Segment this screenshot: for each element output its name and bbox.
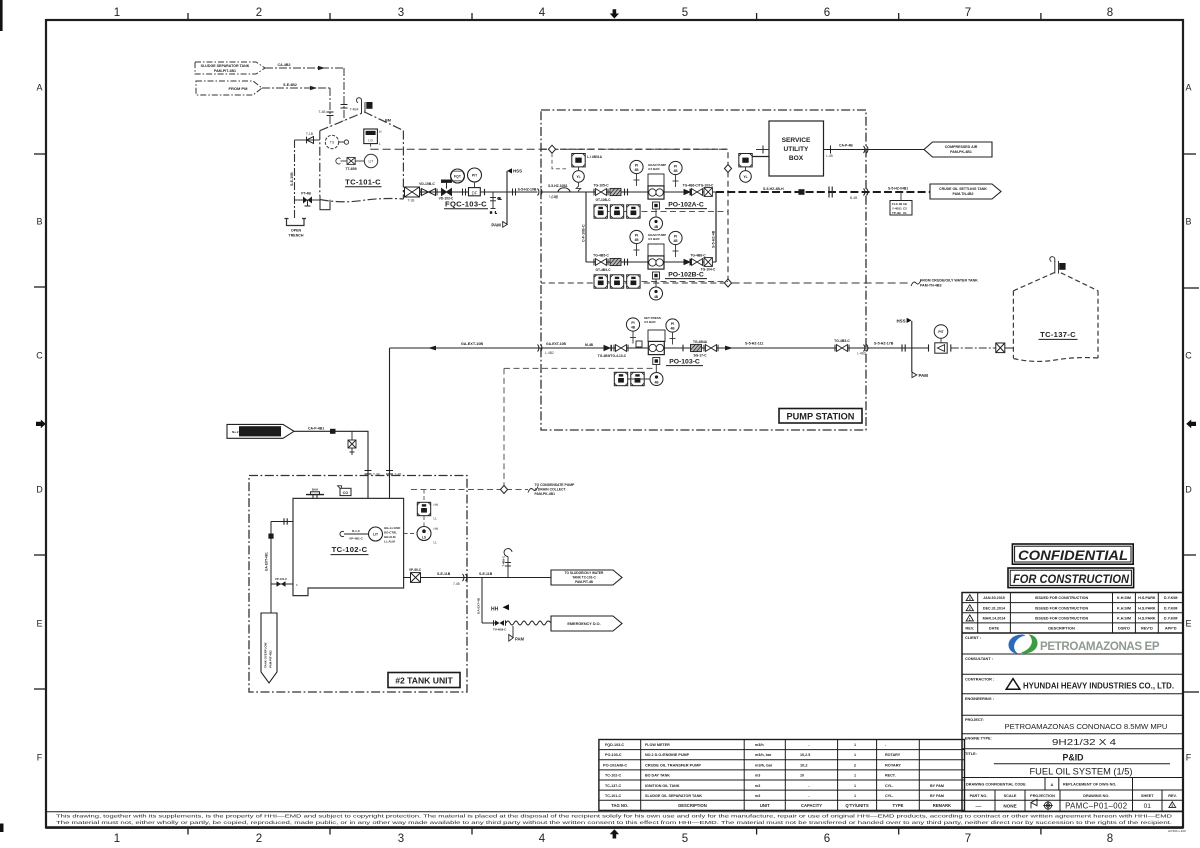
svg-text:DATE: DATE — [989, 626, 1000, 631]
instrument HS square right of tank — [417, 502, 439, 520]
svg-text:H.S.PARK: H.S.PARK — [1138, 596, 1156, 600]
HSS arrow label — [907, 318, 912, 323]
svg-text:SLUDGE OIL SEPARATOR TANK: SLUDGE OIL SEPARATOR TANK — [645, 794, 702, 798]
flange joint on heavy line — [829, 187, 832, 198]
svg-text:GT-4B9-C: GT-4B9-C — [595, 268, 611, 272]
svg-text:HSS: HSS — [896, 318, 905, 323]
svg-text:S-5-HZ-4B: S-5-HZ-4B — [712, 230, 716, 248]
table row: TC-137-C — [605, 784, 944, 788]
svg-text:FQC-103-C: FQC-103-C — [445, 200, 487, 209]
svg-text:ISSUED FOR CONSTRUCTION: ISSUED FOR CONSTRUCTION — [1035, 617, 1089, 621]
grid ticks bottom — [187, 828, 189, 835]
svg-text:TC-137-C: TC-137-C — [605, 784, 622, 788]
gate valve pump A discharge — [690, 189, 704, 196]
open drain funnel — [285, 219, 307, 226]
signal dashes + alarm squares row (pump A) — [594, 211, 728, 213]
spectacle box pump A discharge — [704, 188, 712, 197]
signal drop from pump station — [503, 368, 505, 489]
svg-text:TC-101-C: TC-101-C — [345, 178, 381, 187]
svg-text:T-4B: T-4B — [318, 110, 326, 114]
svg-text:ENGINE TYPE:: ENGINE TYPE: — [965, 737, 992, 741]
wire: PO-103-C suction line y=348 — [390, 347, 650, 349]
svg-text:GA-EXT-10B: GA-EXT-10B — [461, 342, 484, 346]
svg-text:LG: LG — [368, 139, 373, 143]
svg-text:FROM CRUDE/OILY WATER TANK: FROM CRUDE/OILY WATER TANK — [920, 279, 978, 283]
svg-text:LIT: LIT — [369, 160, 374, 164]
centering arrow right — [1186, 420, 1196, 429]
disclaimer band text — [56, 813, 1173, 826]
PAM open triangle — [912, 372, 917, 377]
wire: flag1 to tank roof (dash-dot) — [265, 68, 344, 121]
svg-text:HH+LL:ESD: HH+LL:ESD — [384, 526, 400, 530]
svg-text:VD-10B-C: VD-10B-C — [419, 182, 435, 186]
svg-text:F: F — [1186, 753, 1192, 763]
valve TG-10B-C (pump B suction) — [594, 259, 608, 266]
svg-text:UTILITY: UTILITY — [784, 146, 810, 153]
flame arrestor on TC-102-C — [306, 492, 324, 499]
svg-text:UNIT: UNIT — [760, 803, 770, 808]
svg-text:A: A — [1185, 83, 1191, 93]
svg-text:REV.: REV. — [965, 626, 974, 631]
svg-text:2: 2 — [256, 7, 262, 19]
svg-text:H.S.PARK: H.S.PARK — [1138, 606, 1156, 610]
wire: PO-103 suction drop to tank — [389, 348, 391, 498]
flange pair + spec break label — [513, 189, 516, 196]
relief loop above pump B — [648, 244, 664, 256]
vertical dash-dot pipe S-E-10B — [294, 140, 296, 218]
svg-text:TP-4B: TP-4B — [892, 211, 902, 215]
svg-text:DESCRIPTION: DESCRIPTION — [678, 803, 707, 808]
vent on TC-137-C — [1050, 257, 1066, 274]
svg-text:This drawing, together with it: This drawing, together with its suppleme… — [56, 813, 1173, 819]
title block — [962, 544, 1183, 811]
svg-text:S-E-11B: S-E-11B — [479, 572, 493, 576]
control valve VD-103-C with actuator — [442, 180, 452, 195]
label TC-101-C — [345, 178, 382, 187]
svg-text:PO-102A-C: PO-102A-C — [668, 202, 704, 209]
valve box VP-59-C — [411, 573, 421, 583]
svg-text:SCALE: SCALE — [1004, 794, 1017, 798]
svg-text:DSN'D: DSN'D — [1118, 626, 1130, 631]
svg-text:TO CONDENSATE PUMP: TO CONDENSATE PUMP — [535, 483, 576, 487]
alarm squares (PO-103) — [614, 372, 627, 385]
signal dashed line to tank unit — [504, 367, 654, 369]
svg-text:FQT: FQT — [454, 175, 462, 179]
part/scale value row — [976, 799, 1176, 810]
flag connector: TO SLUDGE SEP TANK (outgoing) — [551, 570, 622, 585]
node diamond right edge mid — [724, 165, 731, 173]
instrument LS circle — [417, 527, 439, 545]
svg-text:EMERGENCY D.O.: EMERGENCY D.O. — [567, 622, 600, 626]
svg-text:m3/h: m3/h — [755, 743, 764, 747]
svg-text:PETROAMAZONAS EP: PETROAMAZONAS EP — [1040, 640, 1160, 653]
svg-text:M-4B: M-4B — [585, 343, 594, 347]
svg-text:DRAWING NO.: DRAWING NO. — [1083, 794, 1109, 798]
flag connector: EMERGENCY D.O. (outgoing) — [551, 616, 622, 631]
node diamond on signal line at station entry — [548, 145, 555, 153]
flag connector: COMPRESSED AIR (incoming) — [924, 142, 992, 157]
instrument LG gauge box — [364, 129, 382, 146]
svg-text:LS: LS — [422, 535, 426, 539]
wire: to TC-137-C — [866, 347, 929, 349]
svg-text:5: 5 — [682, 833, 688, 845]
svg-text:PUMP STATION: PUMP STATION — [787, 411, 855, 421]
svg-text:PT-4B: PT-4B — [301, 192, 311, 196]
flex joint ticks — [625, 189, 628, 196]
svg-text:6: 6 — [824, 833, 830, 845]
svg-text:1: 1 — [114, 833, 120, 845]
table row: TC-101-C — [605, 794, 944, 798]
pump PO-102A-C — [648, 186, 664, 199]
svg-text:D.Y.KIM: D.Y.KIM — [1164, 606, 1178, 610]
svg-text:8: 8 — [1107, 833, 1113, 845]
gauge PI (pump A left) — [630, 160, 643, 186]
svg-text:LL:ALM: LL:ALM — [384, 540, 395, 544]
pump PO-102B-C — [648, 256, 664, 269]
label FQC-103-C — [444, 200, 488, 209]
svg-text:3.5 BAR: 3.5 BAR — [648, 167, 660, 171]
flex joint ticks — [625, 259, 628, 266]
svg-text:Q'TY/UNITS: Q'TY/UNITS — [845, 803, 869, 808]
break at tank unit east edge — [463, 574, 467, 581]
svg-text:7-4B: 7-4B — [453, 582, 460, 586]
svg-text:CONTRACTOR :: CONTRACTOR : — [965, 677, 994, 681]
valve T-1B ticks — [307, 137, 314, 144]
svg-text:HH: HH — [434, 527, 439, 531]
svg-text:DO-CTRL: DO-CTRL — [384, 531, 397, 535]
valve TG-105-C (pump A suction) — [594, 189, 608, 196]
flag connector: FROM SLUDGE TANK (mid-left, filled text) — [227, 424, 294, 438]
spectacle box pump B discharge — [704, 258, 712, 267]
svg-text:S-5-HZ-111: S-5-HZ-111 — [745, 342, 763, 346]
SERVICE UTILITY BOX — [769, 121, 824, 176]
PAM triangle below heater valve — [509, 626, 525, 642]
svg-text:FLS 4B: FLS 4B — [892, 202, 903, 206]
svg-text:COMPRESSED AIR: COMPRESSED AIR — [945, 145, 978, 149]
tank TC-137-C outline (dashed) — [1013, 273, 1098, 362]
flag connector: CRUDE OIL SETTLING TANK (outgoing) — [930, 184, 1001, 199]
break at station west edge — [538, 345, 542, 352]
svg-text:CYL.: CYL. — [885, 794, 893, 798]
svg-text:T-4B9-C: T-4B9-C — [502, 556, 506, 567]
wire: service box outlet to flag — [824, 149, 925, 151]
svg-text:7: 7 — [965, 833, 971, 845]
svg-text:D.Y.KIM: D.Y.KIM — [1164, 596, 1178, 600]
valve box at tank outlet — [405, 187, 420, 197]
Hyundai triangle logo — [1006, 679, 1020, 690]
svg-text:REV'D: REV'D — [1141, 626, 1153, 631]
svg-text:TT-4B9: TT-4B9 — [345, 167, 356, 171]
svg-text:m3: m3 — [755, 784, 760, 788]
svg-text:TG-4B5-C: TG-4B5-C — [593, 253, 609, 257]
svg-text:& DRAIN COLLECT: & DRAIN COLLECT — [535, 487, 567, 491]
centering arrow bottom — [610, 829, 619, 838]
node diamond — [500, 486, 507, 494]
CONFIDENTIAL stamp — [1012, 544, 1133, 564]
drain box under pump B — [653, 272, 660, 279]
svg-text:H.S.PARK: H.S.PARK — [1138, 617, 1156, 621]
flow arrow left — [428, 346, 436, 351]
svg-text:L.I 4B01A: L.I 4B01A — [587, 155, 603, 159]
svg-text:BAH: BAH — [312, 488, 319, 492]
svg-text:4: 4 — [539, 7, 546, 19]
svg-text:PART NO.: PART NO. — [970, 794, 988, 798]
gate valve (PO-103 suction) — [614, 345, 628, 352]
wire dash-dot to tank — [951, 347, 996, 349]
#2 TANK UNIT boundary box — [249, 476, 467, 693]
svg-text:F: F — [37, 753, 43, 763]
vent flame arrestor on TC-101-C roof — [357, 98, 373, 113]
svg-text:S-5-HZ-10B: S-5-HZ-10B — [518, 187, 537, 191]
suction header down to pump B — [585, 192, 587, 262]
svg-text:TV-4B9-C: TV-4B9-C — [493, 628, 507, 632]
vertical drop to heater line — [481, 578, 483, 624]
svg-text:CA-P-4B: CA-P-4B — [839, 144, 853, 148]
svg-text:C: C — [1185, 351, 1192, 361]
svg-text:1: 1 — [969, 617, 971, 621]
row letters left — [36, 83, 43, 763]
svg-text:T-4B4: T-4B4 — [350, 108, 359, 112]
svg-text:HH: HH — [491, 607, 499, 613]
discharge header vertical — [715, 192, 717, 262]
svg-text:B: B — [36, 217, 42, 227]
switch cluster at service box — [739, 154, 752, 183]
svg-text:01: 01 — [1144, 803, 1152, 810]
svg-text:C: C — [36, 351, 43, 361]
svg-text:FQD-103-C: FQD-103-C — [605, 743, 624, 747]
svg-text:TAG NO.: TAG NO. — [611, 803, 628, 808]
flange tick — [682, 345, 684, 352]
node: vertical HSS/PAM at x=911.8 — [911, 321, 913, 372]
svg-text:PAMC–P01–002: PAMC–P01–002 — [1065, 802, 1127, 811]
control valve with PIT (TC-137 inlet) — [929, 325, 951, 353]
svg-text:K.H.SIM: K.H.SIM — [1117, 596, 1131, 600]
projection symbols — [1031, 799, 1053, 810]
flow meter DF box (FQD-103-C) — [469, 188, 481, 196]
HH arrow label — [491, 604, 509, 612]
small fitting above line — [636, 341, 642, 347]
svg-text:TG-4B5-C: TG-4B5-C — [834, 339, 850, 343]
svg-text:SHEET: SHEET — [1141, 794, 1154, 798]
svg-text:ROTARY: ROTARY — [885, 762, 901, 767]
valve T-4B1 (ticks on vertical drop) — [341, 105, 348, 109]
title block grid — [962, 593, 1183, 812]
svg-text:LL: LL — [434, 541, 438, 545]
tank TC-101-C bottom-left nozzle — [320, 196, 330, 210]
label TC-137-C — [1039, 330, 1078, 339]
switch cluster HS/YL (pump A) — [572, 154, 585, 183]
svg-text:10,2: 10,2 — [800, 762, 808, 767]
svg-text:TG-105-C: TG-105-C — [593, 183, 609, 187]
svg-text:3: 3 — [398, 7, 404, 19]
svg-text:GA-EXT-4B: GA-EXT-4B — [477, 597, 481, 614]
svg-text:C2: C2 — [903, 207, 907, 211]
svg-text:LL: LL — [434, 517, 438, 521]
svg-text:3.5 BAR: 3.5 BAR — [644, 320, 656, 324]
bottom thick border — [46, 826, 1183, 829]
svg-text:NONE: NONE — [1003, 804, 1016, 809]
signal line to condensate note — [411, 489, 528, 491]
heater supply wire y=623 — [482, 622, 495, 624]
svg-text:BM: BM — [385, 119, 391, 123]
svg-text:A: A — [36, 83, 42, 93]
svg-text:GT-10B-C: GT-10B-C — [595, 198, 611, 202]
svg-text:—: — — [976, 804, 982, 810]
svg-text:PO-102B-C: PO-102B-C — [668, 272, 704, 279]
centering arrow top — [610, 9, 619, 18]
table row: PO-102A/B-C — [603, 762, 901, 767]
valve T-4B ticks on drop 2 — [386, 471, 393, 475]
svg-text:7: 7 — [965, 7, 971, 19]
svg-text:1: 1 — [854, 774, 856, 778]
svg-text:PAM-PIT-4B1: PAM-PIT-4B1 — [214, 69, 236, 73]
pump unit B: suction line — [586, 261, 648, 263]
valve (gate) on line — [420, 189, 437, 196]
svg-text:1: 1 — [854, 794, 856, 798]
svg-text:CYL.: CYL. — [885, 784, 893, 788]
gauge PI (pump A right) — [669, 161, 682, 187]
svg-text:CO: CO — [343, 491, 349, 495]
svg-text:PAM: PAM — [919, 373, 929, 378]
svg-text:SERVICE: SERVICE — [782, 137, 811, 144]
relief loop above pump PO-103 — [648, 330, 665, 342]
svg-text:S-5-HZ-04B1: S-5-HZ-04B1 — [888, 187, 908, 191]
svg-text:D: D — [36, 485, 43, 495]
svg-text:L-4B3: L-4B3 — [857, 352, 866, 356]
svg-text:REPLACEMENT OF DWG NO.: REPLACEMENT OF DWG NO. — [1063, 783, 1116, 787]
gauge PI (pump B left) — [630, 230, 643, 256]
svg-text:CAPACITY: CAPACITY — [801, 803, 822, 808]
strainer (pump A) — [610, 188, 621, 195]
check valve pump A — [684, 189, 692, 195]
svg-text:PROJECTION: PROJECTION — [1030, 794, 1055, 798]
svg-text:L-4B: L-4B — [551, 196, 558, 200]
svg-text:SEPARATOR TK: SEPARATOR TK — [248, 431, 272, 435]
drain valve VP-101-C — [271, 583, 293, 585]
drain box under pump A — [653, 202, 660, 209]
svg-text:2: 2 — [256, 833, 262, 845]
svg-text:TITLE:: TITLE: — [965, 752, 977, 756]
svg-text:HH:ALM: HH:ALM — [384, 535, 396, 539]
svg-text:TG-4B4A: TG-4B4A — [693, 340, 708, 344]
svg-text:NO.2 D.O./ENGINE PUMP: NO.2 D.O./ENGINE PUMP — [645, 753, 690, 757]
svg-text:HYUNDAI HEAVY INDUSTRIES CO.,: HYUNDAI HEAVY INDUSTRIES CO., LTD. — [1023, 681, 1174, 691]
PAM open triangle — [503, 222, 508, 228]
pump PO-103-C — [648, 341, 664, 354]
svg-text:4B: 4B — [654, 225, 659, 229]
motor circle (PO-103) — [650, 365, 663, 386]
table row: PO-103-C — [605, 753, 901, 757]
svg-text:PO-103-C: PO-103-C — [669, 359, 700, 366]
svg-text:10,2.5: 10,2.5 — [800, 753, 810, 757]
discharge heavy line to settling tank — [716, 191, 932, 193]
svg-text:#2 TANK UNIT: #2 TANK UNIT — [395, 676, 453, 686]
svg-text:VP-4B1-C: VP-4B1-C — [349, 537, 364, 541]
svg-text:CL: CL — [498, 197, 502, 201]
Petroamazonas logo swoosh — [1008, 635, 1037, 654]
svg-text:PAM: PAM — [515, 637, 525, 642]
node: junction vertical to HSS / PAM — [506, 171, 508, 224]
svg-text:C-F-10B-C: C-F-10B-C — [582, 224, 586, 242]
svg-text:APP'D: APP'D — [1165, 626, 1177, 631]
svg-text:2: 2 — [1171, 804, 1173, 808]
wire: tank left nozzle — [271, 521, 293, 523]
svg-text:TANK TC-101-C: TANK TC-101-C — [572, 576, 596, 580]
gauge PI (pump B right) — [669, 231, 682, 257]
valve PT-4B (black bowtie) — [303, 197, 312, 204]
svg-text:m3: m3 — [755, 794, 760, 798]
svg-text:D-1-C: D-1-C — [352, 529, 361, 533]
disclaimer band top line — [46, 811, 1183, 813]
svg-text:DRAWING CONFIDENTIAL CODE: DRAWING CONFIDENTIAL CODE — [966, 783, 1026, 787]
svg-text:TS: TS — [330, 141, 335, 145]
svg-text:D.Y.KIM: D.Y.KIM — [1164, 617, 1178, 621]
discharge line pump B — [664, 261, 716, 263]
svg-text:ISSUED FOR CONSTRUCTION: ISSUED FOR CONSTRUCTION — [1035, 596, 1089, 600]
flexible hose squiggle — [506, 621, 551, 625]
corner mark bottom-left — [0, 824, 4, 833]
tank TC-102-C body — [293, 498, 404, 595]
svg-text:ROTARY: ROTARY — [885, 753, 901, 757]
node diamond inner box bottom right — [724, 279, 731, 287]
svg-text:PIT: PIT — [472, 174, 478, 178]
signal wire LG down — [370, 144, 372, 150]
svg-text:GA-EXT-4B1: GA-EXT-4B1 — [265, 552, 269, 571]
svg-text:L-4B2: L-4B2 — [545, 351, 554, 355]
svg-text:E: E — [36, 619, 42, 629]
relief loop above pump A — [648, 174, 664, 186]
HSS arrow label — [507, 168, 512, 173]
svg-text:CLIENT :: CLIENT : — [965, 636, 981, 640]
svg-text:T-1B: T-1B — [306, 132, 314, 136]
svg-text:TG-4B8-C: TG-4B8-C — [690, 253, 706, 257]
signal wire to pump station (long dashed) — [371, 148, 728, 150]
svg-text:B: B — [1185, 217, 1191, 227]
interlock box below line — [890, 192, 912, 215]
instrument TS circle in tank — [325, 135, 348, 148]
svg-text:D: D — [1185, 485, 1192, 495]
svg-text:B-4B: B-4B — [850, 196, 858, 200]
equipment table — [599, 740, 965, 811]
svg-text:2: 2 — [969, 607, 971, 611]
part/scale header row — [995, 790, 1162, 811]
drain box under pump PO-103 — [653, 358, 660, 365]
svg-text:FUEL OIL SYSTEM (1/5): FUEL OIL SYSTEM (1/5) — [1030, 767, 1133, 777]
svg-text:PAM: PAM — [491, 222, 501, 227]
flag connector: FROM SLUDGE SEPARATOR TANK (top-left) — [195, 62, 265, 74]
svg-text:TRENCH: TRENCH — [289, 234, 304, 238]
svg-text:TO SLUDGE/OILY WATER: TO SLUDGE/OILY WATER — [565, 571, 604, 575]
svg-text:TC-101-C: TC-101-C — [605, 794, 622, 798]
svg-text:The material must not, either: The material must not, either wholly or … — [56, 820, 1172, 826]
discharge line PO-103 — [664, 347, 866, 349]
svg-text:4: 4 — [539, 833, 546, 845]
svg-text:5: 5 — [682, 7, 688, 19]
svg-text:m3/h, bar: m3/h, bar — [755, 753, 772, 757]
svg-text:TC-102-C: TC-102-C — [332, 545, 368, 554]
svg-text:4B: 4B — [654, 381, 659, 385]
svg-text:6: 6 — [824, 7, 830, 19]
svg-text:CONFIDENTIAL: CONFIDENTIAL — [1018, 548, 1128, 563]
svg-text:REV.: REV. — [1168, 794, 1177, 798]
svg-text:TC-102-C: TC-102-C — [605, 774, 622, 778]
svg-text:ENGINEERING :: ENGINEERING : — [965, 697, 994, 701]
PUMP STATION label box — [779, 409, 862, 424]
svg-text:CRUDE OIL SETTLING TANK: CRUDE OIL SETTLING TANK — [939, 187, 987, 191]
svg-text:9H21/32 X 4: 9H21/32 X 4 — [1052, 738, 1117, 747]
table row: TC-102-C — [605, 774, 896, 778]
FOR CONSTRUCTION stamp — [1008, 568, 1134, 588]
